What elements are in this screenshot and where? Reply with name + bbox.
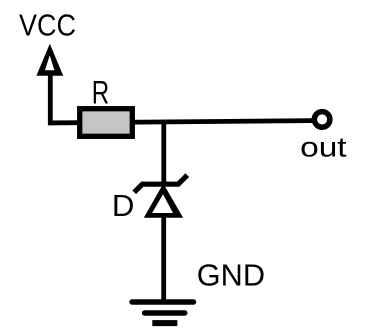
svg-text:GND: GND: [197, 257, 265, 292]
power symbol VCC arrow: [36, 44, 63, 76]
svg-text:out: out: [300, 131, 347, 162]
wire VCC stem and horizontal rail to out terminal: [50, 74, 312, 123]
out terminal circle: [314, 112, 330, 128]
svg-text:VCC: VCC: [19, 8, 76, 43]
wire junction to zener diode: [161, 121, 166, 186]
zener diode D triangle (anode): [144, 184, 183, 218]
resistor R1 body: [80, 109, 133, 137]
svg-text:R: R: [92, 75, 109, 111]
zener diode D cathode bar with bent ends: [134, 175, 187, 192]
wire zener to ground: [161, 215, 166, 302]
ground symbol: [132, 302, 194, 326]
svg-text:D: D: [112, 188, 134, 223]
